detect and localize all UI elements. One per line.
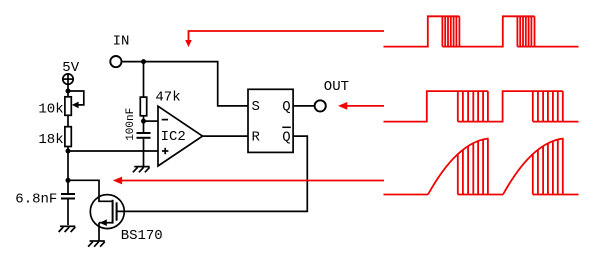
waveform capacitor sawtooth	[384, 139, 579, 195]
svg-text:Q: Q	[282, 129, 290, 145]
capacitor 6.8nF	[15, 191, 75, 225]
arrow pointer to IN wire	[185, 31, 384, 47]
wire latch Qbar to transistor gate	[117, 136, 308, 211]
node junction IN / 47k	[141, 59, 146, 64]
potentiometer 10k	[38, 91, 83, 118]
ground under 6.8nF	[59, 226, 76, 232]
node junction 18k / op-amp + input	[66, 149, 71, 154]
node junction 5V / wiper	[66, 89, 71, 94]
svg-text:100nF: 100nF	[125, 108, 137, 141]
svg-text:18k: 18k	[38, 132, 63, 148]
wire pot to 18k	[67, 115, 69, 126]
arrow pointer to OUT terminal	[338, 102, 384, 110]
op-amp IC2	[158, 106, 203, 166]
svg-text:BS170: BS170	[121, 228, 163, 244]
capacitor 100nF	[125, 108, 151, 166]
wire IN to latch S input	[122, 62, 249, 106]
node junction - input	[141, 119, 146, 124]
ground under 100nF	[133, 167, 150, 173]
wire gate: node to transistor	[68, 180, 113, 201]
svg-text:IN: IN	[113, 34, 130, 50]
waveform OUT	[384, 91, 579, 122]
resistor 18k	[38, 127, 71, 148]
latch U1 S/R box	[248, 89, 293, 152]
svg-text:6.8nF: 6.8nF	[15, 191, 57, 207]
svg-text:10k: 10k	[38, 102, 63, 118]
wire 18k down to capacitor node	[67, 147, 69, 194]
svg-text:S: S	[252, 99, 260, 115]
svg-text:Q: Q	[282, 99, 290, 115]
node junction capacitor / gate	[66, 178, 71, 183]
svg-text:IC2: IC2	[161, 129, 186, 145]
terminal OUT	[315, 79, 349, 112]
svg-text:47k: 47k	[155, 89, 180, 105]
wire op-amp output to latch R input	[203, 135, 249, 137]
resistor 47k	[140, 89, 180, 115]
svg-text:5V: 5V	[62, 60, 79, 76]
power supply 5V	[62, 60, 79, 84]
arrow pointer to capacitor node	[113, 177, 384, 185]
wire 47k to - node	[143, 116, 145, 133]
wire 5V to potentiometer	[67, 84, 69, 97]
wire op-amp + input	[68, 150, 158, 152]
waveform IN	[384, 16, 579, 46]
ground under BS170	[88, 241, 105, 247]
svg-text:R: R	[252, 129, 261, 145]
wire latch Q to OUT	[293, 105, 315, 107]
transistor Q1 BS170	[90, 195, 162, 244]
wire IN node down to 47k	[143, 62, 145, 98]
terminal IN	[110, 34, 129, 68]
wire op-amp - input	[144, 120, 159, 122]
svg-text:OUT: OUT	[324, 79, 349, 95]
